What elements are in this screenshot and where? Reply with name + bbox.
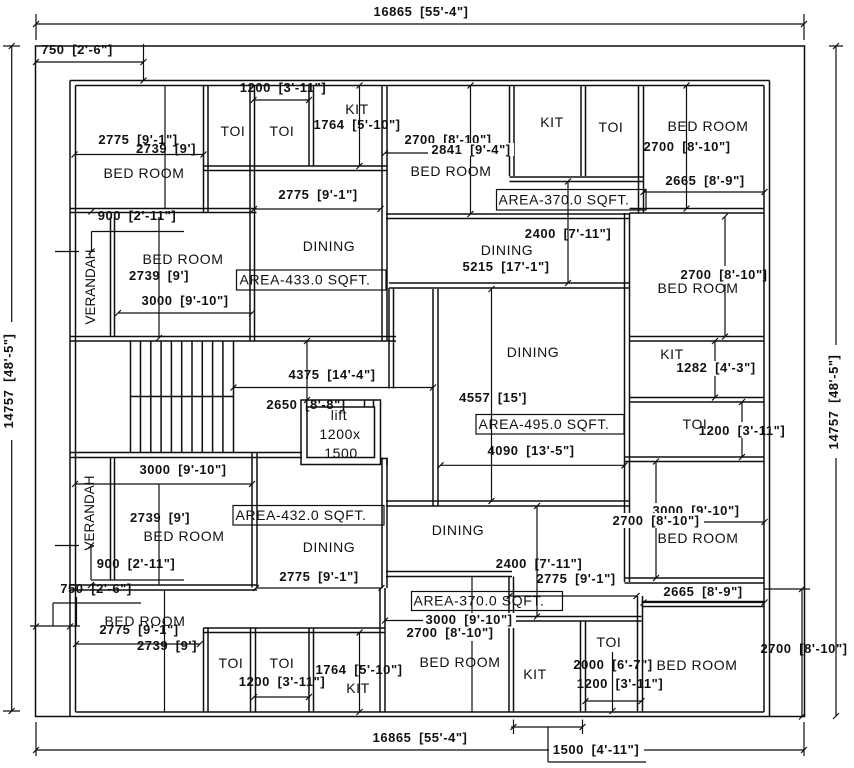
wall bedroom/toi partition BL [204,628,209,712]
dimension line 1764 BL kit [357,630,363,716]
wall kit/toi top wall BC [514,617,642,622]
label dim 3000 BC bedroom [423,613,516,628]
wall toi2/kit partition BL [309,628,314,712]
svg-text:AREA-370.0 SQFT.: AREA-370.0 SQFT. [414,593,545,609]
svg-text:VERANDAH: VERANDAH [82,475,97,550]
svg-text:BED ROOM: BED ROOM [104,613,185,629]
stair west edge [130,341,132,453]
svg-text:2700 [8'-10"]: 2700 [8'-10"] [760,641,847,656]
dimension 2775 extension TL bed1 [164,86,166,209]
wall verandah east wall BL [111,458,115,581]
wall bottom-left dining west wall [252,453,257,588]
dimension extension BL bed2 [158,484,160,585]
dimension line 3000 BC bedroom [382,618,514,624]
svg-text:BED ROOM: BED ROOM [103,165,184,181]
wall kit west wall TR [510,86,515,177]
wall central dining west wall [433,289,438,506]
dimension 900 bottom-left leader [55,543,184,589]
wall bedroom1/toi partition TL [204,86,209,213]
svg-text:TOI: TOI [270,655,295,671]
wall bedroom BR bottom top wall [642,602,765,607]
svg-text:2400 [7'-11"]: 2400 [7'-11"] [525,226,611,241]
dimension line 4557 central dining [489,286,495,504]
svg-text:3000 [9'-10"]: 3000 [9'-10"] [139,462,226,477]
dimension 1200 BC toi [583,652,645,714]
wall kit top wall R [630,337,765,342]
wall kit/toi partition BC [581,621,586,712]
svg-text:AREA-495.0 SQFT.: AREA-495.0 SQFT. [479,416,610,432]
svg-text:KIT: KIT [523,666,547,682]
svg-text:2775 [9'-1"]: 2775 [9'-1"] [278,187,357,202]
svg-text:2739 [9']: 2739 [9'] [137,638,197,653]
wall unit TL bottom [70,337,396,342]
dimension 1500 kit bottom [511,720,647,763]
svg-text:5215 [17'-1"]: 5215 [17'-1"] [462,259,549,274]
svg-text:2775 [9'-1"]: 2775 [9'-1"] [279,569,358,584]
svg-text:TOI: TOI [683,416,708,432]
svg-text:14757 [48'-5"]: 14757 [48'-5"] [826,355,841,450]
svg-text:1200 [3'-11"]: 1200 [3'-11"] [239,674,325,689]
wall lobby east wall [389,288,394,389]
wall bedroom1 bottom TL [70,209,257,213]
lift/wall connector step [381,459,388,466]
building outer wall left [70,81,76,717]
svg-text:BED ROOM: BED ROOM [667,118,748,134]
dimension line 2650 lobby [304,338,310,403]
dimension 900 top-left leader [55,209,184,255]
building outer wall bottom [76,711,765,713]
svg-text:2700 [8'-10"]: 2700 [8'-10"] [406,625,493,640]
dimension line 2700 TR bed vertical [468,83,474,218]
dimension line 16865 top [33,21,807,27]
area box AREA-433 [237,270,387,290]
area box AREA-370 bottom [412,592,563,611]
svg-text:BED ROOM: BED ROOM [656,657,737,673]
dimension line 2775 BC dining [507,593,640,599]
staircase treads [141,341,234,453]
svg-text:1500 [4'-11"]: 1500 [4'-11"] [553,742,639,757]
dimension line 2700 R bedroom v [653,459,659,582]
svg-text:TOI: TOI [219,655,244,671]
svg-text:BED ROOM: BED ROOM [410,163,491,179]
building outer wall right [764,81,770,717]
svg-text:BED ROOM: BED ROOM [419,654,500,670]
svg-text:DINING: DINING [432,522,485,538]
label dim 2841 TR bed [428,143,514,156]
svg-text:2700 [8'-10"]: 2700 [8'-10"] [612,513,699,528]
dimension 750 top-left leader [33,44,147,84]
svg-text:2665 [8'-9"]: 2665 [8'-9"] [665,173,744,188]
svg-text:2739 [9']: 2739 [9'] [129,268,189,283]
svg-text:DINING: DINING [507,344,560,360]
wall central dining bottom wall [386,501,630,506]
lift door notch [365,400,374,407]
area box AREA-432 [233,506,384,526]
dimension line 1764 TL kit [357,83,363,170]
lift shaft [301,400,381,465]
svg-text:2775 [9'-1"]: 2775 [9'-1"] [536,571,615,586]
wall bedroom R bottom wall [625,578,765,583]
plot boundary rectangle [36,46,805,717]
svg-text:4090 [13'-5"]: 4090 [13'-5"] [487,443,574,458]
dimension line 16865 bottom [33,747,807,753]
svg-text:BED ROOM: BED ROOM [142,251,223,267]
dimension line 1200 BL toi2 [251,694,312,700]
wall verandah east wall TL [111,217,115,337]
wall toi bottom wall R [625,457,765,462]
dimension 750 bottom-left leader [30,597,141,630]
label dim 1200 R toi [695,422,762,438]
svg-text:2739 [9']: 2739 [9'] [136,141,196,156]
svg-text:TOI: TOI [599,119,624,135]
dimension line 1200 TL toi2 [251,97,313,103]
svg-text:4375 [14'-4"]: 4375 [14'-4"] [288,367,375,382]
wall kit/toi bottom wall TR [510,177,644,182]
dimension line 4375 [231,385,437,391]
wall bottom-left dining east wall [382,458,387,589]
dimension line 2775/2739 TL bed1 [72,152,207,158]
wall stair bottom wall [70,453,302,458]
wall top-right unit bottom A [386,214,630,219]
wall kit bottom wall R [630,398,765,403]
label dim 1282 R kit [671,361,759,376]
dimension line 2775/2739 BL bed1 [73,641,203,647]
svg-text:1200 [3'-11"]: 1200 [3'-11"] [577,676,663,691]
svg-text:2841 [9'-4"]: 2841 [9'-4"] [431,142,510,157]
dimension line 2775 BL dining [253,585,385,591]
svg-text:KIT: KIT [345,101,369,117]
svg-text:1200 [3'-11"]: 1200 [3'-11"] [699,423,785,438]
svg-text:BED ROOM: BED ROOM [657,280,738,296]
dimension line 4090 central dining [438,462,628,468]
svg-text:3000 [9'-10"]: 3000 [9'-10"] [141,293,228,308]
svg-text:14757 [48'-5"]: 14757 [48'-5"] [1,334,16,429]
wall toi/bedroom partition TR [639,86,644,214]
svg-text:900 [2'-11"]: 900 [2'-11"] [98,208,177,223]
wall toi east wall BC [638,596,643,712]
svg-text:750 [2'-6"]: 750 [2'-6"] [60,581,132,596]
svg-text:VERANDAH: VERANDAH [83,249,98,324]
area box AREA-495 [476,415,624,435]
svg-text:900 [2'-11"]: 900 [2'-11"] [97,556,176,571]
svg-text:2739 [9']: 2739 [9'] [130,510,190,525]
svg-text:16865 [55'-4"]: 16865 [55'-4"] [373,730,468,745]
svg-text:TOI: TOI [270,123,295,139]
dimension extension BC bedroom [471,577,473,713]
wall toi/toi partition + dining west wall TL [250,86,255,342]
svg-text:750 [2'-6"]: 750 [2'-6"] [41,42,113,57]
svg-text:2665 [8'-9"]: 2665 [8'-9"] [663,584,742,599]
dimension line 3000 BL bed2 [72,481,255,487]
svg-text:1200 [3'-11"]: 1200 [3'-11"] [240,80,326,95]
wall unit divider TL/TR [382,86,387,342]
wall toi/toi partition BL [251,628,256,712]
dimension line 3000 R bedroom [627,519,768,525]
dimension line 1282 R kit [712,338,718,401]
dimension line 3000 TL bed2 [115,310,255,316]
dimension line 2400 TR dining [565,179,571,287]
dimension line 2665 TR [641,189,768,195]
dimension line 2665 R lower [641,600,768,606]
svg-text:1764 [5'-10"]: 1764 [5'-10"] [313,117,400,132]
wall kit east wall BL [380,588,385,712]
label dim 2700 R mid [670,266,762,284]
svg-text:BED ROOM: BED ROOM [657,530,738,546]
svg-text:KIT: KIT [346,680,370,696]
svg-text:BED ROOM: BED ROOM [143,528,224,544]
svg-text:1500: 1500 [324,445,358,461]
svg-text:TOI: TOI [597,634,622,650]
svg-text:AREA-370.0 SQFT.: AREA-370.0 SQFT. [499,191,630,207]
dimension line 14757 right [833,43,839,719]
svg-text:DINING: DINING [303,238,356,254]
dimension line 1200 R toi [739,399,745,460]
wall toi2/kit partition TL [309,86,314,167]
dimension 2700 outer right [764,586,810,720]
svg-text:KIT: KIT [540,114,564,130]
dimension line 2841 TR bed [382,150,514,156]
svg-text:AREA-433.0 SQFT.: AREA-433.0 SQFT. [240,272,371,288]
svg-text:4557 [15']: 4557 [15'] [459,390,527,405]
svg-text:1200x: 1200x [319,426,360,442]
svg-text:16865 [55'-4"]: 16865 [55'-4"] [374,4,469,19]
svg-text:1764 [5'-10"]: 1764 [5'-10"] [315,662,402,677]
svg-text:lift: lift [331,407,347,423]
svg-text:2000 [6'-7"]: 2000 [6'-7"] [573,657,652,672]
wall bedroom BL bottom wall [70,585,257,590]
wall toi block bottom TL [204,166,388,171]
svg-text:DINING: DINING [303,539,356,555]
wall right column west wall [625,213,630,582]
dimension line 14757 left [9,43,15,714]
dimension line 2775 TL dining [251,206,384,212]
svg-text:2400 [7'-11"]: 2400 [7'-11"] [496,556,582,571]
wall kit west wall BC [509,577,514,713]
area box AREA-370 top [497,190,647,211]
svg-text:AREA-432.0 SQFT.: AREA-432.0 SQFT. [236,507,367,523]
dimension line 2700 R mid bedroom [722,214,728,340]
label dim 2700 BC bedroom [404,628,496,641]
svg-text:DINING: DINING [481,242,534,258]
svg-text:KIT: KIT [660,346,684,362]
wall bottom dining west bottom wall [386,572,512,577]
wall toi block top BL [204,628,386,633]
label dim 1500 [549,742,644,757]
staircase landing line [131,396,234,398]
svg-text:TOI: TOI [221,123,246,139]
dimension line 2400 BC dining [534,503,540,620]
wall central top wall [389,283,630,288]
dimension line 2700 TR bedroom v [684,83,690,212]
wall toi west wall TR [581,86,586,177]
svg-text:2700 [8'-10"]: 2700 [8'-10"] [643,139,730,154]
svg-text:1282 [4'-3"]: 1282 [4'-3"] [676,360,755,375]
wall top-right unit bottom B [630,209,765,214]
label dim 2700 R bedroom2 [609,513,704,528]
dimension extension TL bed2 [156,217,162,341]
label dim 3000 R bedroom [648,503,745,518]
building outer wall top [70,81,770,86]
dimension extension BL bed1 [164,590,166,712]
